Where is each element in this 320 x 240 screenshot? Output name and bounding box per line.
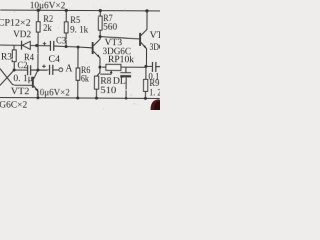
- svg-text:A: A: [65, 63, 73, 74]
- svg-text:0. 1μ: 0. 1μ: [13, 74, 33, 84]
- svg-text:VD2: VD2: [13, 30, 31, 40]
- wire diode/C3 row left: [0, 44, 50, 47]
- resistor R8: [97, 67, 100, 76]
- svg-text:CP12×2: CP12×2: [0, 18, 31, 28]
- svg-text:R3: R3: [1, 53, 12, 63]
- svg-text:10μ6V×2: 10μ6V×2: [30, 1, 66, 11]
- svg-text:9. 1k: 9. 1k: [70, 25, 88, 35]
- resistor R9: [145, 66, 147, 79]
- wire bottom ground rail: [0, 97, 160, 100]
- plus sign C4: [42, 64, 46, 68]
- svg-text:560: 560: [103, 23, 117, 33]
- svg-text:0.1: 0.1: [148, 72, 159, 82]
- wire R7 branch vertical: [99, 11, 101, 37]
- wire crossing X (to off-screen VT1): [0, 69, 33, 86]
- plus sign C3: [43, 42, 47, 46]
- red corner blob: [151, 99, 161, 110]
- wire C2/C4 row: [14, 69, 59, 72]
- svg-text:510: 510: [100, 86, 116, 96]
- svg-text:1. 2: 1. 2: [149, 88, 160, 98]
- svg-text:C2: C2: [17, 61, 27, 71]
- capacitor C4 plates: [49, 65, 52, 75]
- capacitor C5 electrolytic: [125, 67, 127, 72]
- wire R5 branch vertical: [65, 10, 67, 46]
- svg-text:10μ6V×2: 10μ6V×2: [35, 88, 70, 98]
- capacitor C3 plates: [50, 41, 53, 51]
- terminal A circle: [59, 68, 63, 72]
- transistor VT3: [93, 37, 101, 68]
- junction dots: [12, 9, 148, 100]
- svg-text:2k: 2k: [43, 24, 52, 34]
- transistor VT2: [33, 70, 39, 98]
- svg-text:VT4: VT4: [150, 31, 160, 41]
- resistor R7: [98, 16, 102, 30]
- capacitor C2 plates: [28, 65, 31, 75]
- svg-text:3DG6C×2: 3DG6C×2: [0, 100, 28, 110]
- wire C3 right to VT3 base: [54, 46, 92, 48]
- resistor R2: [36, 22, 40, 32]
- resistor R5: [64, 22, 68, 33]
- wire R2 branch vertical: [37, 10, 39, 45]
- wire R7 bottom to VT4 base: [100, 37, 140, 39]
- potentiometer RP: [100, 66, 106, 68]
- RP wiper: [100, 71, 111, 74]
- resistor R6: [77, 47, 79, 68]
- diode VD2: [22, 41, 31, 50]
- svg-text:C3: C3: [56, 36, 66, 46]
- svg-text:C4: C4: [48, 55, 60, 65]
- capacitor C6 output: [152, 62, 155, 72]
- svg-text:VT2: VT2: [11, 87, 30, 97]
- resistor R3: [13, 45, 15, 49]
- svg-text:6k: 6k: [81, 75, 89, 85]
- transistor VT4: [140, 11, 147, 67]
- wire top supply rail: [0, 9, 160, 12]
- svg-text:RP10k: RP10k: [108, 55, 134, 65]
- wire R4 branch vertical: [37, 45, 39, 69]
